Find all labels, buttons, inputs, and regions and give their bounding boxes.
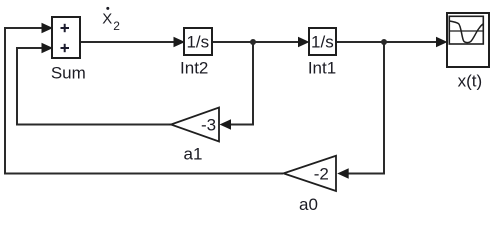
- wire junction B down to gain a1: [229, 42, 253, 125]
- node B junction dot: [250, 39, 256, 45]
- wire Int1 to Scope: [336, 41, 439, 43]
- wire gain a1 output to Sum input 2: [17, 48, 171, 125]
- svg-text:a0: a0: [299, 195, 318, 214]
- plus sign input 2: [61, 44, 70, 52]
- arrowhead into Int2: [174, 37, 186, 47]
- signal label X2dot: [102, 7, 120, 33]
- plus sign input 1: [61, 24, 70, 32]
- integrator Int2: [184, 28, 212, 55]
- scope screen: [449, 16, 483, 44]
- scope block: [447, 13, 489, 67]
- node C junction dot: [381, 39, 387, 45]
- svg-text:Int1: Int1: [308, 59, 336, 78]
- arrowhead into Sum input 2: [42, 43, 54, 53]
- svg-text:Sum: Sum: [51, 63, 86, 82]
- svg-text:a1: a1: [184, 145, 203, 164]
- svg-text:2: 2: [113, 19, 120, 33]
- wire Sum output to Int2: [80, 41, 176, 43]
- svg-text:x(t): x(t): [458, 72, 483, 91]
- wire gain a0 output to Sum input 1: [5, 28, 283, 174]
- svg-text:-2: -2: [314, 165, 329, 184]
- arrowhead into Sum input 1: [42, 23, 54, 33]
- gain a0: [284, 156, 337, 191]
- arrowhead into gain a0: [337, 168, 349, 178]
- arrowhead into gain a1: [220, 119, 232, 129]
- svg-text:X: X: [102, 11, 112, 28]
- gain a1: [171, 108, 219, 142]
- scope waveform: [450, 21, 484, 43]
- svg-text:1/s: 1/s: [186, 32, 209, 51]
- arrowhead into Int1: [298, 37, 310, 47]
- svg-text:Int2: Int2: [180, 59, 208, 78]
- svg-text:1/s: 1/s: [311, 32, 334, 51]
- svg-text:-3: -3: [201, 116, 216, 135]
- sum block Sum: [52, 17, 80, 58]
- wire Int2 to Int1: [212, 41, 301, 43]
- scope midline: [449, 30, 483, 32]
- arrowhead into Scope: [436, 37, 448, 47]
- integrator Int1: [309, 28, 336, 55]
- wire junction C down to gain a0: [346, 42, 384, 174]
